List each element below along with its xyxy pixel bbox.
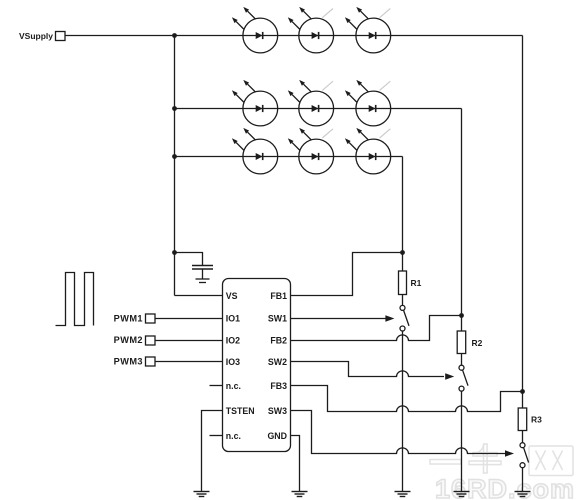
ground (capacitor): [196, 279, 210, 283]
node bus/capacitor junction: [172, 250, 177, 255]
svg-text:R1: R1: [411, 278, 422, 288]
LED D5: [288, 80, 334, 126]
svg-text:IO3: IO3: [226, 357, 240, 367]
LED D8: [288, 128, 334, 174]
node bus/row2 junction: [172, 106, 177, 111]
switch S2: [459, 365, 468, 391]
wire SW1 control: [291, 315, 395, 321]
LED D2: [288, 7, 334, 53]
svg-text:R2: R2: [472, 338, 483, 348]
wire FB2: [291, 316, 462, 341]
svg-text:FB1: FB1: [270, 291, 287, 301]
pin stub n.c. lower: [210, 435, 223, 437]
resistor R2: [457, 331, 482, 354]
wire switch S2 to ground: [461, 391, 463, 491]
capacitor C1: [192, 266, 213, 280]
svg-text:FB2: FB2: [270, 336, 287, 346]
wire IO3: [155, 361, 223, 363]
node FB3/R3 junction: [520, 389, 525, 394]
wire TSTEN to ground: [202, 411, 223, 492]
terminal PWM1: [114, 313, 155, 323]
wire IO1: [155, 318, 223, 320]
ground (TSTEN): [194, 492, 210, 497]
wire supply bus vertical: [174, 36, 176, 296]
wire string C vertical: [522, 36, 524, 409]
terminal VSupply: [19, 31, 65, 41]
wire R1 to switch: [402, 295, 404, 306]
wire LED row2: [175, 108, 462, 110]
svg-text:n.c.: n.c.: [226, 381, 241, 391]
wire FB3: [291, 386, 523, 412]
pin stub n.c. upper: [210, 385, 223, 387]
node bus/row3 junction: [172, 154, 177, 159]
svg-text:TSTEN: TSTEN: [226, 406, 255, 416]
wire string A vertical: [402, 157, 404, 272]
svg-text:PWM3: PWM3: [114, 357, 143, 367]
ground (string C): [515, 492, 531, 497]
PWM waveform: [56, 273, 94, 326]
ground (GND pin): [292, 492, 308, 497]
wire R2 to switch: [461, 354, 463, 366]
LED D7: [232, 128, 278, 174]
terminal PWM2: [114, 335, 155, 345]
svg-text:SW2: SW2: [268, 357, 287, 367]
wire supply row1: [65, 35, 523, 37]
svg-text:R3: R3: [531, 415, 542, 425]
wire LED row3: [175, 156, 403, 158]
resistor R3: [518, 408, 542, 431]
switch S3: [520, 443, 529, 468]
svg-text:SW3: SW3: [268, 406, 287, 416]
svg-text:GND: GND: [267, 431, 287, 441]
wire VS pin: [175, 295, 223, 297]
wire R3 to switch: [522, 431, 524, 443]
wire string B vertical: [461, 109, 463, 332]
wire switch S1 to ground: [402, 331, 404, 492]
LED D1: [232, 7, 278, 53]
svg-text:n.c.: n.c.: [226, 431, 241, 441]
wire capacitor branch: [175, 253, 203, 266]
LED D9: [345, 128, 391, 174]
svg-text:VSupply: VSupply: [19, 31, 53, 41]
wire SW2 control: [291, 362, 455, 380]
svg-text:FB3: FB3: [270, 381, 287, 391]
terminal PWM3: [114, 357, 155, 367]
svg-text:VS: VS: [226, 291, 238, 301]
switch S1: [400, 305, 409, 331]
wire IO2: [155, 340, 223, 342]
ground (string A): [395, 492, 411, 497]
svg-text:16RD.com: 16RD.com: [435, 474, 575, 500]
resistor R1: [399, 271, 422, 295]
wire GND to ground: [291, 436, 300, 492]
svg-text:SW1: SW1: [268, 314, 287, 324]
wire SW3 control: [291, 411, 515, 457]
LED D3: [345, 7, 391, 53]
node FB2/R2 junction: [459, 313, 464, 318]
node FB1/R1 junction: [400, 250, 405, 255]
wire FB1: [291, 253, 403, 296]
IC U1: [223, 279, 291, 452]
ground (string B): [454, 492, 470, 497]
LED D4: [232, 80, 278, 126]
svg-text:IO2: IO2: [226, 336, 240, 346]
svg-text:PWM1: PWM1: [114, 313, 143, 323]
node supply/row1 junction: [172, 33, 177, 38]
svg-text:PWM2: PWM2: [114, 335, 143, 345]
wire switch S3 to ground: [522, 468, 524, 492]
LED D6: [345, 80, 391, 126]
svg-text:IO1: IO1: [226, 314, 240, 324]
